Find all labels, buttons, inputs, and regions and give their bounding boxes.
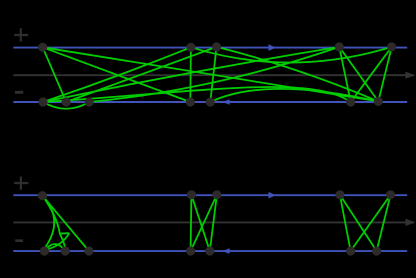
node T4	[335, 42, 344, 51]
wire T2'-B4'	[190, 195, 193, 251]
node T5	[387, 42, 396, 51]
wire T4'-B6'	[340, 195, 351, 251]
arrow right on positive rail	[269, 44, 276, 51]
node T4'	[335, 190, 344, 199]
node TL'	[38, 191, 47, 200]
middle line bottom	[13, 221, 414, 223]
node T2	[186, 43, 195, 52]
wire T5'-B7'	[377, 195, 391, 251]
wire T2-T5 sag	[191, 47, 392, 63]
positive rail top	[13, 47, 407, 49]
node B2'	[61, 246, 70, 255]
node T1	[38, 43, 47, 52]
node T2'	[187, 190, 196, 199]
wire TL-B3'	[42, 196, 89, 251]
node B3	[85, 97, 94, 106]
plus label bottom	[14, 177, 28, 190]
wire T5-B6	[351, 47, 392, 102]
wire T1-B7	[43, 47, 379, 101]
wire TL-B1'	[42, 196, 54, 249]
node B7	[374, 97, 383, 106]
wire T4'-B7'	[340, 195, 377, 251]
node T3'	[212, 190, 221, 199]
wire B1-T2	[43, 47, 191, 102]
wire T3-B5 vertical	[210, 47, 216, 102]
node B7'	[372, 246, 381, 255]
wire B1-T4 bowed	[43, 47, 339, 102]
node B4	[186, 97, 195, 106]
wire T3-B7 bowed	[217, 47, 379, 102]
wire T1-B4	[43, 47, 191, 102]
minus label top	[15, 91, 23, 94]
arrow right on positive rail bottom	[269, 192, 276, 199]
wire T5-B7	[378, 47, 391, 102]
node B6	[346, 97, 355, 106]
node B1'	[40, 246, 49, 255]
wire T3'-B5'	[210, 195, 217, 251]
arrow right on middle line bottom	[405, 219, 415, 226]
node B4'	[186, 246, 195, 255]
wire T1-B2	[43, 47, 66, 102]
wire knot link	[60, 232, 70, 234]
arrow left on negative rail bottom	[222, 248, 229, 254]
wire knot loop	[47, 233, 69, 249]
node B2	[62, 97, 71, 106]
plus label top	[14, 28, 28, 41]
wire arc B1'-B2'	[44, 244, 65, 251]
wire T2'-B5'	[191, 195, 209, 251]
arrow left on negative rail	[222, 99, 229, 105]
negative rail top	[13, 101, 407, 103]
node B5	[206, 97, 215, 106]
wire T4-B7	[339, 47, 378, 102]
negative rail bottom	[13, 250, 407, 252]
minus label bottom	[15, 239, 23, 242]
wire B5-B7 bulge	[210, 89, 378, 102]
node B6'	[346, 246, 355, 255]
wire T4-B6	[339, 47, 350, 102]
node B5'	[205, 246, 214, 255]
node T5'	[386, 190, 395, 199]
wire B3-T4 sag	[89, 47, 339, 102]
wire B2-T3	[66, 47, 216, 102]
node B1	[39, 97, 48, 106]
wire B1-B6 bulge	[43, 87, 351, 102]
wire T2-B4 vertical	[189, 47, 192, 102]
wire T5'-B6'	[351, 195, 391, 251]
positive rail bottom	[13, 194, 407, 196]
middle line top	[13, 74, 414, 76]
arrow right on middle line	[405, 72, 415, 79]
node B3'	[84, 246, 93, 255]
node T3	[212, 42, 221, 51]
wire arc B1-B3 below rail	[43, 102, 89, 109]
wire T3'-B4'	[191, 195, 217, 251]
wire TL-B2'	[42, 196, 65, 249]
